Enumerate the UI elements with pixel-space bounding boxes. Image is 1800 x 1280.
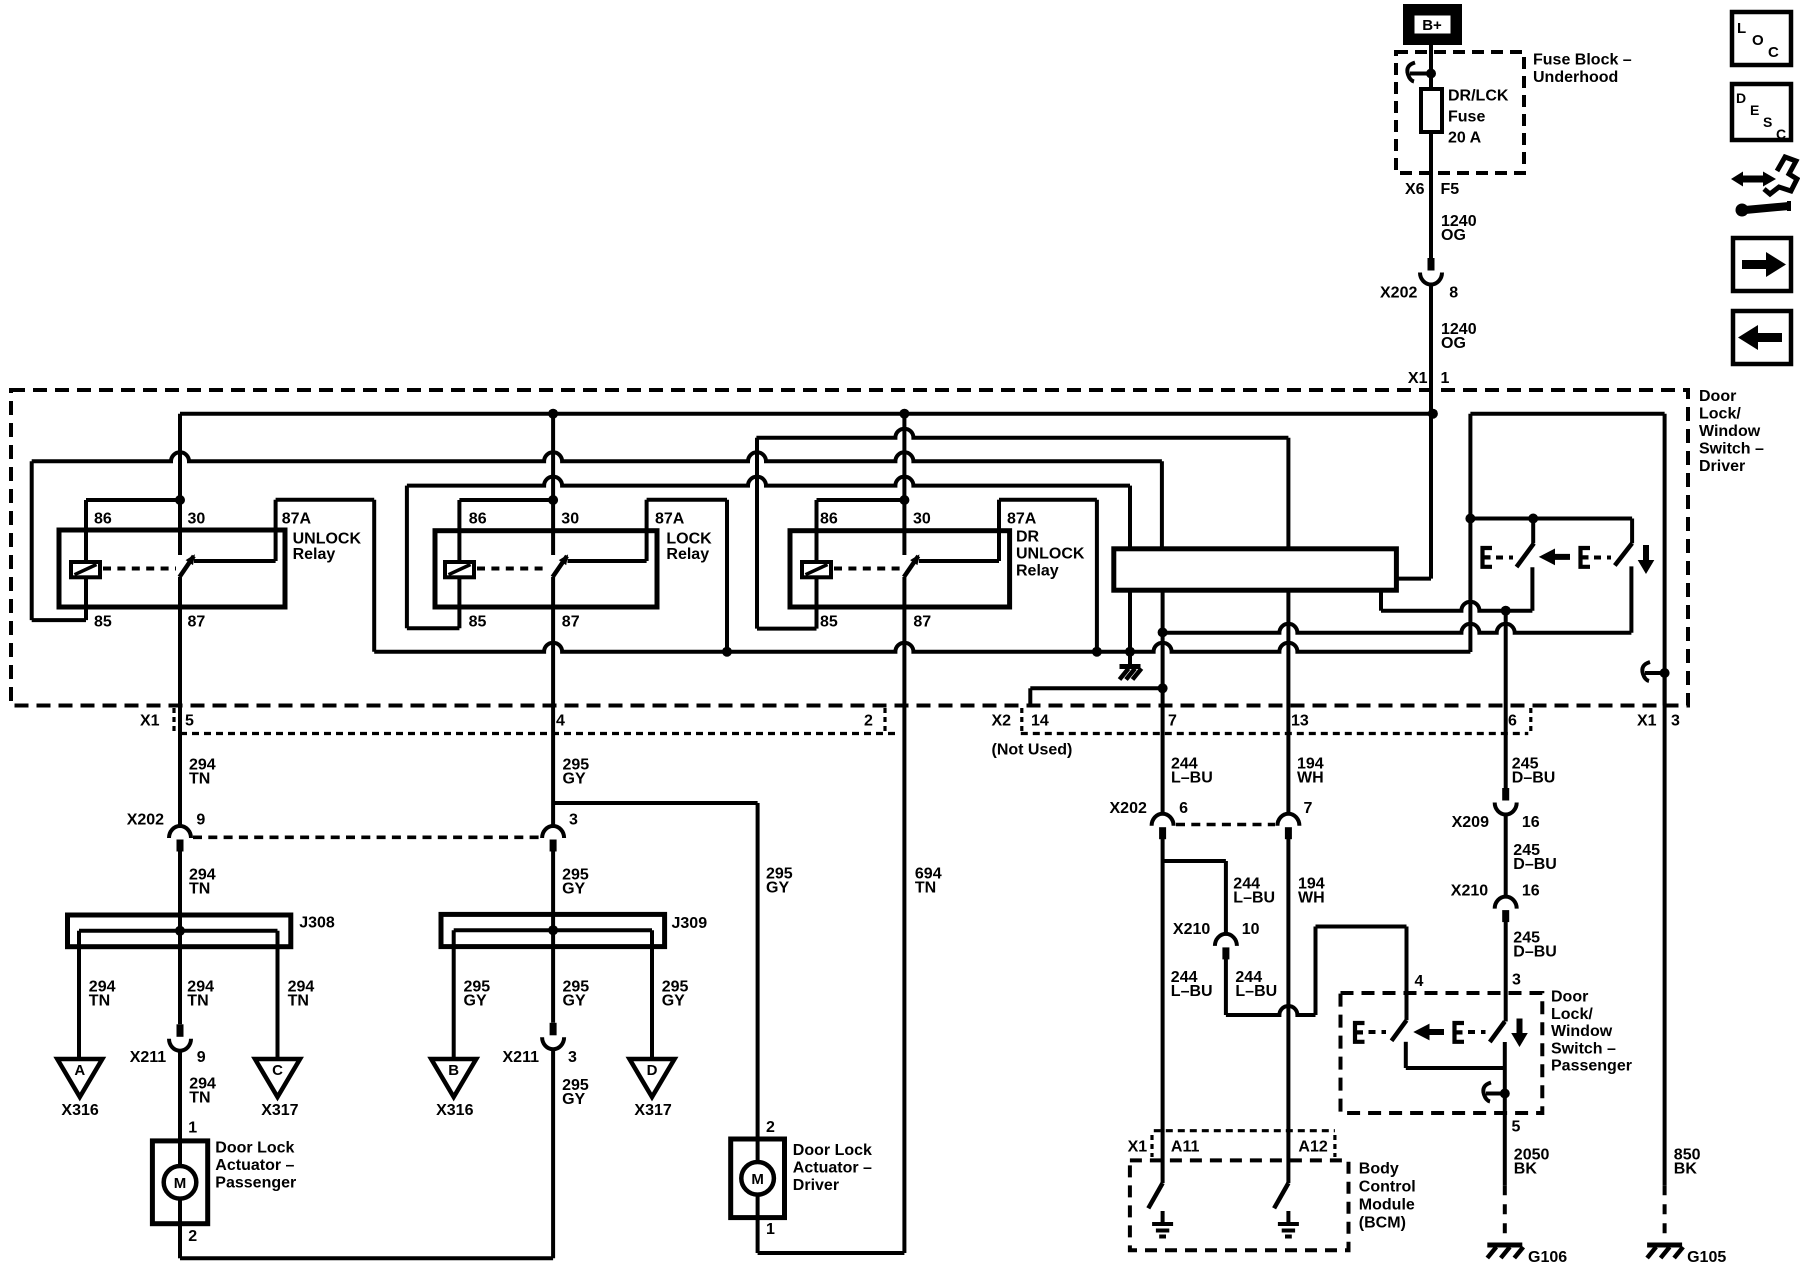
wire pin6 down xyxy=(1504,611,1508,788)
svg-text:Passenger: Passenger xyxy=(1551,1058,1632,1075)
wire relay U1 87A drop xyxy=(372,500,376,652)
relay U2 name xyxy=(666,531,712,564)
pin label 14 xyxy=(1031,713,1049,730)
svg-text:GY: GY xyxy=(464,993,487,1010)
svg-text:Driver: Driver xyxy=(1699,458,1745,475)
fuse block underhood dashed box xyxy=(1396,52,1524,173)
label not used xyxy=(992,741,1073,758)
relay U3 name xyxy=(1016,529,1085,580)
label 245 D-BU mid xyxy=(1513,842,1557,873)
pin separator after 6 xyxy=(1529,708,1532,731)
svg-text:30: 30 xyxy=(561,511,579,528)
svg-text:DR: DR xyxy=(1016,529,1040,546)
passenger sw1 blade xyxy=(1392,1020,1407,1041)
relay U3 30 wire xyxy=(902,414,906,555)
svg-text:13: 13 xyxy=(1291,713,1309,730)
label 1240 OG upper xyxy=(1441,213,1477,244)
wire 2050 BK dashed to ground xyxy=(1503,1185,1507,1242)
wire J309 left branch xyxy=(452,930,456,1059)
battery feed B+ terminal xyxy=(1405,6,1460,43)
svg-text:Passenger: Passenger xyxy=(215,1175,296,1192)
wire X210-16 to passenger switch xyxy=(1504,922,1508,1022)
wire X202-8 to switch box xyxy=(1429,284,1433,579)
icon box arrow left xyxy=(1733,311,1791,364)
label pin 1 actuator passenger xyxy=(188,1119,197,1136)
svg-text:9: 9 xyxy=(196,812,205,829)
svg-text:2: 2 xyxy=(188,1228,197,1245)
svg-text:UNLOCK: UNLOCK xyxy=(1016,546,1085,563)
wire jog bottom xyxy=(1226,1006,1316,1015)
bus1b wire xyxy=(756,429,1288,438)
label X202 9 xyxy=(127,812,206,829)
svg-text:TN: TN xyxy=(189,1090,210,1107)
svg-text:86: 86 xyxy=(820,511,838,528)
wire 850 BK dashed to ground xyxy=(1663,1185,1667,1242)
relay U3 label 87A xyxy=(1007,511,1037,528)
wire relay U3 87A drop xyxy=(1095,500,1099,652)
driver sw2 bottom stub xyxy=(1629,566,1633,632)
passenger sw1 E dashes xyxy=(1369,1030,1387,1034)
relay U3 coil xyxy=(802,562,831,577)
junction dot relay U3 30 xyxy=(899,495,909,505)
relay U2 coil dashed link xyxy=(477,567,549,571)
junction dot J309 xyxy=(548,925,558,935)
clip passenger switch xyxy=(1483,1083,1509,1102)
connector X202 pin 7 xyxy=(1277,814,1299,840)
wire relay U2 87A drop xyxy=(725,500,729,652)
pin label 13 xyxy=(1291,713,1309,730)
label X202 7 xyxy=(1304,800,1313,817)
svg-text:X1: X1 xyxy=(1128,1139,1148,1156)
svg-text:85: 85 xyxy=(469,614,487,631)
label 295 GY right branch xyxy=(662,979,689,1010)
relay U1 UNLOCK box xyxy=(59,530,285,607)
svg-text:X210: X210 xyxy=(1173,921,1210,938)
label 245 D-BU pin6 xyxy=(1512,756,1556,787)
triangle D xyxy=(630,1059,675,1097)
svg-text:87: 87 xyxy=(562,614,580,631)
wire J308 right branch xyxy=(276,931,280,1059)
pin label 2 xyxy=(864,713,873,730)
relay U2 label 85 xyxy=(469,614,487,631)
label X202 6 xyxy=(1110,800,1189,817)
wire to passenger pin4 xyxy=(1316,927,1407,1021)
svg-text:X317: X317 xyxy=(261,1102,298,1119)
label X211 9 xyxy=(130,1049,206,1066)
net C wire xyxy=(1163,624,1632,633)
label X316 under A xyxy=(61,1102,98,1119)
driver switch top edge xyxy=(1470,412,1664,416)
svg-text:S: S xyxy=(1763,114,1772,130)
label 294 TN below X211 xyxy=(189,1076,216,1107)
relay U3 DR UNLOCK box xyxy=(790,531,1010,607)
svg-text:2: 2 xyxy=(864,713,873,730)
svg-text:C: C xyxy=(1776,126,1786,142)
label X202 8 xyxy=(1380,285,1458,302)
bus2 wire xyxy=(32,452,1162,461)
svg-text:A: A xyxy=(74,1062,85,1079)
svg-text:B: B xyxy=(448,1062,459,1079)
junction dot bus1 main feed xyxy=(1428,409,1438,419)
svg-text:F5: F5 xyxy=(1441,181,1460,198)
svg-text:L–BU: L–BU xyxy=(1235,983,1277,1000)
BCM A12 switch blade xyxy=(1274,1183,1288,1208)
wire J309 right branch xyxy=(650,930,654,1059)
relay U1 label 87 xyxy=(188,614,206,631)
relay U2 87A wire xyxy=(568,500,728,561)
svg-text:X202: X202 xyxy=(127,812,164,829)
relay U2 86 wire xyxy=(459,500,553,562)
svg-text:Door Lock: Door Lock xyxy=(215,1140,294,1157)
BCM pin label A12 xyxy=(1298,1139,1327,1156)
triangle B xyxy=(431,1059,476,1097)
svg-text:OG: OG xyxy=(1441,227,1466,244)
BCM label xyxy=(1359,1161,1416,1232)
actuator driver label xyxy=(793,1142,872,1194)
svg-text:X317: X317 xyxy=(634,1102,671,1119)
relay U1 86 wire xyxy=(86,500,180,562)
wire branch down to actuator driver xyxy=(756,803,760,1139)
svg-text:Control: Control xyxy=(1359,1179,1416,1196)
junction dot driver switch left xyxy=(1465,514,1475,524)
driver sw2 E glyph xyxy=(1581,548,1591,567)
relay U3 label 86 xyxy=(820,511,838,528)
svg-text:Window: Window xyxy=(1551,1023,1613,1040)
passenger sw2 blade xyxy=(1490,1022,1505,1043)
svg-text:Door: Door xyxy=(1551,989,1588,1006)
connector X209 pin 16 xyxy=(1495,788,1517,815)
door lock window switch driver label xyxy=(1699,388,1764,475)
relay U1 label 85 xyxy=(94,614,112,631)
label 295 GY left branch xyxy=(464,979,491,1010)
label 244 L-BU jog xyxy=(1233,876,1275,907)
svg-text:Lock/: Lock/ xyxy=(1699,406,1741,423)
label pin 2 actuator passenger xyxy=(188,1228,197,1245)
BCM A11 switch blade xyxy=(1148,1183,1162,1208)
svg-text:A12: A12 xyxy=(1298,1139,1327,1156)
driver sw1 E glyph xyxy=(1483,548,1493,567)
svg-text:Door Lock: Door Lock xyxy=(793,1142,872,1159)
wire J308 left branch xyxy=(77,931,81,1059)
svg-text:16: 16 xyxy=(1522,814,1540,831)
relay U1 label 87A xyxy=(282,511,312,528)
X2-14 not used stub xyxy=(1030,688,1162,705)
label 294 TN pin5 xyxy=(189,757,216,788)
junction dot bus1 relay3-30 xyxy=(899,409,909,419)
svg-text:87: 87 xyxy=(188,614,206,631)
connector X210 pin 10 xyxy=(1215,934,1237,960)
svg-text:OG: OG xyxy=(1441,335,1466,352)
svg-text:UNLOCK: UNLOCK xyxy=(293,531,362,548)
relay U1 name xyxy=(293,531,362,564)
svg-text:Relay: Relay xyxy=(666,546,709,563)
actuator passenger label xyxy=(215,1140,296,1192)
svg-text:D–BU: D–BU xyxy=(1512,770,1556,787)
net D wire 87A common xyxy=(374,643,1470,652)
junction dot net C pin7 xyxy=(1158,627,1168,637)
wire actuator passenger to rail xyxy=(178,1224,182,1259)
driver switch left wire xyxy=(1468,414,1472,652)
label 295 GY below X211-3 xyxy=(562,1077,589,1108)
relay U3 87A wire xyxy=(919,500,1097,561)
wire B+ to fuse xyxy=(1429,43,1433,89)
door lock window switch passenger label xyxy=(1551,989,1632,1075)
svg-text:87A: 87A xyxy=(1007,511,1037,528)
wire X202-3 to J309 xyxy=(551,851,555,1023)
connector X202 pin 9 xyxy=(169,826,191,851)
wire relay U1 87 down xyxy=(178,577,182,826)
svg-text:B+: B+ xyxy=(1422,17,1442,34)
wire bus3 through bar xyxy=(1128,486,1132,652)
svg-text:Switch –: Switch – xyxy=(1699,441,1764,458)
relay U2 label 86 xyxy=(469,511,487,528)
svg-text:85: 85 xyxy=(820,614,838,631)
junction dot net D relay U2 87A xyxy=(722,647,732,657)
svg-text:BK: BK xyxy=(1514,1161,1538,1178)
svg-text:4: 4 xyxy=(1415,973,1424,990)
junction dot driver switch sw1 xyxy=(1528,514,1538,524)
label 1240 OG lower xyxy=(1441,321,1477,352)
relay U1 blade xyxy=(180,554,195,577)
svg-text:Lock/: Lock/ xyxy=(1551,1006,1593,1023)
bottom rail passenger xyxy=(180,1256,553,1260)
label 295 GY below X202-3 xyxy=(562,867,589,898)
svg-text:Window: Window xyxy=(1699,423,1761,440)
connector X211 pin 3 xyxy=(542,1023,564,1050)
label X210 16 xyxy=(1451,883,1540,900)
svg-text:GY: GY xyxy=(766,880,789,897)
passenger sw2 E glyph xyxy=(1455,1023,1465,1042)
svg-text:20 A: 20 A xyxy=(1448,130,1482,147)
passenger sw2 E dashes xyxy=(1468,1030,1486,1034)
clip X1-3 driver xyxy=(1642,662,1669,681)
wire X202-6 to BCM xyxy=(1161,839,1165,1183)
label J308 xyxy=(299,915,335,932)
label J309 xyxy=(672,915,708,932)
svg-text:D–BU: D–BU xyxy=(1513,944,1557,961)
svg-text:GY: GY xyxy=(563,993,586,1010)
door lock window switch driver dashed box xyxy=(11,390,1688,706)
driver sw1 top stub xyxy=(1531,519,1535,544)
wire relay U3 87 down xyxy=(902,577,906,1253)
svg-text:Relay: Relay xyxy=(1016,563,1059,580)
label pin 1 actuator driver xyxy=(766,1221,775,1238)
svg-text:G106: G106 xyxy=(1528,1249,1567,1266)
svg-text:Fuse Block –: Fuse Block – xyxy=(1533,52,1632,69)
pin label 7 xyxy=(1168,713,1177,730)
pin label 5 xyxy=(185,713,194,730)
svg-text:1: 1 xyxy=(188,1119,197,1136)
wire relay U2 87 down xyxy=(551,577,555,826)
svg-text:5: 5 xyxy=(185,713,194,730)
icon arrows wrench xyxy=(1731,157,1797,217)
svg-text:GY: GY xyxy=(562,881,585,898)
pin label 3 right xyxy=(1671,713,1680,730)
relay U3 label 87 xyxy=(913,614,931,631)
relay U3 blade xyxy=(904,554,920,577)
svg-text:7: 7 xyxy=(1168,713,1177,730)
svg-text:X209: X209 xyxy=(1452,814,1489,831)
driver sw1 blade xyxy=(1517,543,1534,567)
door lock window switch passenger dashed box xyxy=(1341,993,1543,1113)
svg-text:3: 3 xyxy=(1512,972,1521,989)
label X202 3 xyxy=(569,812,578,829)
connector X210 pin 16 xyxy=(1495,897,1517,923)
driver switch down arrow xyxy=(1638,545,1655,574)
label X1 1 xyxy=(1408,370,1450,387)
driver sw1 E dashes xyxy=(1496,556,1513,560)
relay U2 coil xyxy=(445,562,474,577)
svg-text:87A: 87A xyxy=(282,511,312,528)
svg-text:WH: WH xyxy=(1297,770,1324,787)
body control module dashed box xyxy=(1130,1160,1349,1250)
relay U2 blade xyxy=(553,554,569,577)
svg-text:X2: X2 xyxy=(992,713,1012,730)
junction dot relay U1 30 xyxy=(175,495,185,505)
pin label 6 xyxy=(1508,713,1517,730)
wire X210-10 down xyxy=(1224,959,1228,1015)
svg-text:TN: TN xyxy=(189,881,210,898)
wire pin7 bus2 to bar xyxy=(1160,461,1164,549)
svg-text:Switch –: Switch – xyxy=(1551,1040,1616,1057)
svg-text:3: 3 xyxy=(569,812,578,829)
pin label X1 right xyxy=(1637,713,1657,730)
label X317 under D xyxy=(634,1102,671,1119)
label 294 TN below X202-9 xyxy=(189,867,216,898)
relay U1 30 wire xyxy=(178,414,182,555)
svg-text:M: M xyxy=(751,1171,764,1188)
label 295 GY pin4 xyxy=(563,757,590,788)
wire X1-3 down xyxy=(1663,673,1667,1185)
door lock actuator passenger box xyxy=(152,1141,207,1224)
branch jog to X210-10 xyxy=(1163,861,1226,934)
svg-text:5: 5 xyxy=(1512,1118,1521,1135)
label 294 TN center xyxy=(187,979,214,1010)
wire pin7 bar to band xyxy=(1161,590,1165,814)
triangle C xyxy=(255,1059,300,1097)
svg-text:C: C xyxy=(272,1062,283,1079)
svg-text:86: 86 xyxy=(469,511,487,528)
actuator passenger motor M xyxy=(164,1141,197,1224)
label X6 F5 xyxy=(1405,181,1459,198)
relay U2 label 87A xyxy=(655,511,685,528)
svg-text:TN: TN xyxy=(189,771,210,788)
svg-text:6: 6 xyxy=(1179,800,1188,817)
svg-text:X202: X202 xyxy=(1380,285,1417,302)
icon box LOC xyxy=(1732,12,1791,65)
svg-text:X316: X316 xyxy=(61,1102,98,1119)
svg-text:86: 86 xyxy=(94,511,112,528)
svg-text:M: M xyxy=(174,1175,187,1192)
svg-text:X210: X210 xyxy=(1451,883,1488,900)
svg-text:GY: GY xyxy=(562,1091,585,1108)
bus3 wire xyxy=(407,477,1130,486)
passenger switch left arrow xyxy=(1413,1024,1444,1041)
fuse DR/LCK 20A symbol xyxy=(1421,89,1442,132)
svg-text:(Not Used): (Not Used) xyxy=(992,741,1073,758)
passenger sw1 bottom stub xyxy=(1406,1042,1505,1068)
svg-text:X211: X211 xyxy=(503,1049,540,1066)
junction dot bus1 relay2-30 xyxy=(548,409,558,419)
label 850 BK xyxy=(1674,1147,1701,1178)
driver switch inner top xyxy=(1470,519,1632,544)
wire X209 to X210 xyxy=(1504,814,1508,897)
fuse block terminal clip xyxy=(1407,63,1436,82)
relay U3 85 wire xyxy=(757,438,817,629)
junction dot X2-14 tie xyxy=(1158,683,1168,693)
svg-text:30: 30 xyxy=(913,511,931,528)
connector X202 pin 3 xyxy=(542,826,564,852)
pin label 4 xyxy=(556,713,565,730)
icon box arrow right xyxy=(1733,238,1791,291)
svg-text:X316: X316 xyxy=(436,1102,473,1119)
BCM pin label X1 xyxy=(1128,1139,1148,1156)
relay U2 LOCK box xyxy=(435,531,657,607)
pin band lower dashed left xyxy=(180,732,895,735)
pin separator X1-5 xyxy=(172,708,175,731)
chassis ground inside switch xyxy=(1120,652,1142,680)
icon box DESC xyxy=(1732,84,1791,142)
label X316 under B xyxy=(436,1102,473,1119)
driver switch left arrow xyxy=(1539,549,1570,566)
svg-text:Fuse: Fuse xyxy=(1448,109,1485,126)
svg-text:L: L xyxy=(1737,20,1746,37)
BCM A11 ground xyxy=(1152,1211,1173,1237)
wire pin13 bar to band xyxy=(1286,590,1290,814)
connector X202 tie 6-7 dashed xyxy=(1176,823,1275,827)
svg-text:L–BU: L–BU xyxy=(1171,983,1213,1000)
driver switch right wire xyxy=(1663,414,1667,706)
relay U1 coil dashed link xyxy=(103,567,176,571)
label 294 TN left branch xyxy=(89,979,116,1010)
label G105 xyxy=(1687,1249,1726,1266)
pin band lower dashed right xyxy=(1021,732,1529,735)
svg-text:3: 3 xyxy=(568,1049,577,1066)
splice J309 xyxy=(441,914,665,946)
svg-text:Actuator –: Actuator – xyxy=(793,1159,872,1176)
connector X202 pin 8 xyxy=(1420,258,1442,285)
BCM pin label A11 xyxy=(1171,1139,1200,1156)
connector X202 tie dashed xyxy=(193,835,540,839)
label X317 under C xyxy=(261,1102,298,1119)
svg-text:Relay: Relay xyxy=(293,546,336,563)
svg-text:D: D xyxy=(647,1062,658,1079)
label X211 3 xyxy=(503,1049,578,1066)
door lock actuator driver box xyxy=(731,1139,785,1218)
relay U2 label 30 xyxy=(561,511,579,528)
relay U2 label 87 xyxy=(562,614,580,631)
svg-text:6: 6 xyxy=(1508,713,1517,730)
relay U1 label 30 xyxy=(188,511,206,528)
svg-text:C: C xyxy=(1768,44,1779,61)
svg-text:8: 8 xyxy=(1449,285,1458,302)
label 244 L-BU pin7 xyxy=(1171,756,1213,787)
svg-text:Module: Module xyxy=(1359,1197,1415,1214)
svg-text:X1: X1 xyxy=(140,713,160,730)
junction dot relay U2 30 xyxy=(548,495,558,505)
svg-text:Actuator –: Actuator – xyxy=(215,1157,294,1174)
relay U1 label 86 xyxy=(94,511,112,528)
svg-text:O: O xyxy=(1752,32,1764,49)
passenger sw2 wire down xyxy=(1503,1042,1507,1185)
wire X202-9 to J308 xyxy=(178,851,182,1024)
relay U3 86 wire xyxy=(817,500,905,562)
svg-text:GY: GY xyxy=(662,993,685,1010)
label pin 2 actuator driver xyxy=(766,1119,775,1136)
label X209 16 xyxy=(1452,814,1540,831)
net A wire xyxy=(1381,590,1532,611)
wire actuator driver to rail xyxy=(756,1218,760,1253)
